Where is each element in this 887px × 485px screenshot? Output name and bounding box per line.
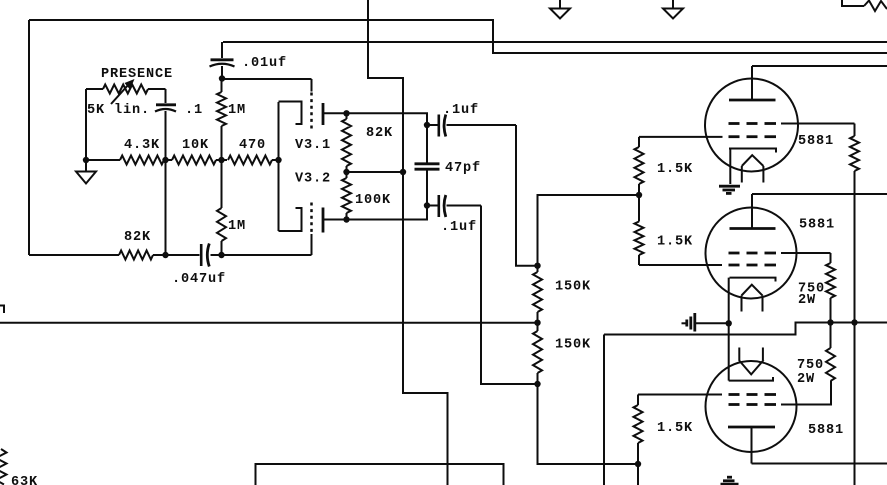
node 150K bottom junction — [534, 381, 540, 387]
svg-text:82K: 82K — [366, 126, 393, 141]
resistor 1.5K middle — [635, 195, 644, 265]
label 100K — [355, 193, 391, 208]
node V3.2 plate junction — [343, 216, 349, 222]
node 150K mid junction — [534, 320, 540, 326]
node 750 junction a — [827, 319, 833, 325]
label V3.1 — [295, 138, 331, 153]
node V3.1 plate junction — [343, 110, 349, 116]
wire top feed B (.01uf rail) — [223, 41, 887, 43]
node .01uf/1M junction — [219, 75, 225, 81]
ground presence (open triangle) — [76, 160, 96, 184]
label 750 third — [797, 358, 824, 373]
node cap junction top — [424, 122, 430, 128]
wire grid link to 1.5K — [538, 195, 640, 266]
label 470 — [239, 138, 266, 153]
label 82K lower — [124, 230, 151, 245]
node 1.5K mid junction — [636, 192, 642, 198]
resistor 1.5K upper — [635, 137, 644, 195]
capacitor .01uf — [210, 42, 235, 79]
wire 150K chain down — [538, 384, 639, 464]
box bottom component — [256, 464, 504, 485]
label 63K — [11, 475, 38, 485]
resistor 750 first — [850, 124, 859, 485]
label 1M lower — [228, 219, 246, 234]
tube V1 5881 envelope — [705, 79, 798, 172]
svg-text:1M: 1M — [228, 219, 246, 234]
triode V3.2 cathode — [279, 208, 302, 231]
label .047uf — [172, 272, 226, 287]
label PRESENCE — [101, 67, 173, 82]
resistor 4.3K — [86, 156, 167, 165]
node .047/1M junction — [218, 252, 224, 258]
label .1uf upper — [443, 103, 479, 118]
svg-text:.01uf: .01uf — [242, 56, 287, 71]
label 1.5K middle — [657, 235, 693, 250]
wire rail right section — [604, 323, 887, 335]
wire V3.2 plate to cap — [347, 206, 428, 220]
node 4.3K/10K junction — [162, 157, 168, 163]
tube V1 grid row1 — [729, 122, 855, 125]
svg-text:2W: 2W — [797, 372, 815, 387]
svg-text:5881: 5881 — [808, 423, 844, 438]
wire long rail left — [0, 322, 538, 324]
wire plate line tube V3 — [752, 463, 887, 465]
node 82K/.1 junction — [162, 252, 168, 258]
node 1.5K bottom junction — [635, 461, 641, 467]
node feed junction — [400, 169, 406, 175]
svg-text:.1: .1 — [185, 103, 203, 118]
tube V2 grid row1 — [729, 252, 831, 255]
svg-text:4.3K: 4.3K — [124, 138, 160, 153]
svg-text:150K: 150K — [555, 338, 591, 353]
resistor 63K partial — [0, 449, 7, 485]
resistor 82K plate — [342, 113, 351, 172]
resistor partial top-right corner — [842, 0, 887, 11]
node 10K/470/1M junction — [218, 157, 224, 163]
label 150K lower — [555, 338, 591, 353]
node cap junction bottom — [424, 202, 430, 208]
label 2W third — [797, 372, 815, 387]
wire main feed vertical — [368, 0, 448, 485]
tube V2 grid row2 — [729, 264, 777, 267]
arrow connector down 1 — [550, 0, 570, 19]
tube V3 grid row1 — [638, 394, 776, 396]
svg-text:5881: 5881 — [798, 134, 834, 149]
resistor 1M upper — [217, 79, 226, 160]
wire coupling top route — [516, 125, 538, 266]
label 5881 tube2 — [799, 218, 835, 233]
tube V3 grid row2 — [729, 381, 832, 405]
svg-text:47pf: 47pf — [445, 161, 481, 176]
wire plate line tube V2 — [752, 193, 887, 195]
wire top feed A (left loop top) — [29, 20, 887, 53]
resistor 750 third — [826, 323, 835, 382]
tube V3 5881 envelope — [706, 361, 797, 452]
wire PI input link — [347, 171, 404, 173]
label 1.5K upper — [657, 162, 693, 177]
label .1uf lower — [441, 220, 477, 235]
arrow connector down 2 — [663, 0, 683, 19]
resistor 1.5K third — [634, 395, 643, 485]
wire V3.1 plate to cap — [347, 113, 428, 125]
capacitor .047uf — [166, 244, 222, 267]
tube V3 plate — [728, 427, 775, 464]
node 150K top junction — [534, 263, 540, 269]
resistor 1M lower — [217, 160, 226, 255]
resistor 100K — [342, 172, 351, 220]
label 150K upper — [555, 280, 591, 295]
resistor 150K lower — [533, 323, 542, 384]
tube V3 cathode — [729, 348, 773, 381]
svg-text:1.5K: 1.5K — [657, 235, 693, 250]
node pot-ground junction — [83, 157, 89, 163]
tube V2 5881 envelope — [706, 208, 797, 299]
svg-text:V3.1: V3.1 — [295, 138, 331, 153]
potentiometer wiper arrow — [111, 79, 135, 104]
resistor 82K lower — [29, 251, 166, 260]
capacitor 47pf — [415, 125, 440, 206]
wire grid tube2 — [639, 264, 722, 266]
ground tube V1 — [719, 186, 740, 193]
svg-text:750: 750 — [797, 358, 824, 373]
label 750 second — [798, 282, 825, 297]
resistor 470 — [228, 156, 279, 165]
label 5881 tube1 — [798, 134, 834, 149]
capacitor .1uf upper — [427, 115, 516, 137]
resistor 10K — [167, 156, 227, 165]
triode V3.1 grid — [311, 79, 313, 129]
tube V2 plate — [730, 194, 776, 229]
wire vertical x604 — [603, 335, 605, 485]
potentiometer 5K lin body — [86, 85, 166, 161]
triode V3.2 plate — [323, 208, 347, 233]
wire presence node — [28, 20, 30, 255]
svg-text:.1uf: .1uf — [443, 103, 479, 118]
svg-text:.1uf: .1uf — [441, 220, 477, 235]
svg-text:82K: 82K — [124, 230, 151, 245]
wire grid V3.2 feed — [222, 254, 312, 256]
label 4.3K — [124, 138, 160, 153]
svg-text:2W: 2W — [798, 293, 816, 308]
svg-text:470: 470 — [239, 138, 266, 153]
svg-text:1.5K: 1.5K — [657, 162, 693, 177]
tube V1 cathode — [729, 149, 776, 185]
wire .1-cap branch down — [165, 160, 167, 255]
triode V3.1 plate — [323, 103, 347, 125]
wire cathode link V2-V3 — [728, 278, 730, 381]
label 2W second — [798, 293, 816, 308]
ground inverted tube V3 — [721, 477, 739, 484]
svg-text:63K: 63K — [11, 475, 38, 485]
tube V1 plate — [729, 66, 776, 100]
label 47pf — [445, 161, 481, 176]
tube V1 grid row2 — [729, 135, 777, 138]
svg-text:.047uf: .047uf — [172, 272, 226, 287]
resistor 150K upper — [533, 266, 542, 323]
wire coupling bottom route — [481, 206, 538, 385]
capacitor .1 (pot leg) — [155, 89, 176, 160]
label 5K lin. — [87, 103, 150, 118]
svg-text:10K: 10K — [182, 138, 209, 153]
capacitor .1uf lower — [427, 195, 481, 217]
svg-text:5881: 5881 — [799, 218, 835, 233]
left edge stub — [0, 306, 4, 314]
label V3.2 — [295, 172, 331, 187]
node 470/cathode junction — [275, 157, 281, 163]
label 1.5K third — [657, 421, 693, 436]
label .01uf — [242, 56, 287, 71]
tube V2 cathode — [730, 278, 776, 312]
wire plate line tube V1 (top) — [752, 65, 887, 67]
label 10K — [182, 138, 209, 153]
node 82K/100K junction — [343, 169, 349, 175]
svg-text:1.5K: 1.5K — [657, 421, 693, 436]
triode V3.1 cathode — [279, 102, 302, 125]
wire cathode link V3 — [278, 102, 280, 231]
svg-text:5K lin.: 5K lin. — [87, 103, 150, 118]
ground chassis mid — [682, 313, 729, 332]
label .1 — [185, 103, 203, 118]
label 1M upper — [228, 103, 246, 118]
svg-text:V3.2: V3.2 — [295, 172, 331, 187]
node 750 junction b — [851, 319, 857, 325]
svg-text:PRESENCE: PRESENCE — [101, 67, 173, 82]
resistor 750 second — [826, 253, 835, 323]
label 82K plate — [366, 126, 393, 141]
node cathode-ground junction — [726, 320, 732, 326]
wire grid tube1 — [639, 136, 723, 138]
wire grid feed V3.1 — [222, 78, 312, 80]
label 5881 tube3 — [808, 423, 844, 438]
svg-text:1M: 1M — [228, 103, 246, 118]
svg-text:100K: 100K — [355, 193, 391, 208]
svg-text:150K: 150K — [555, 280, 591, 295]
triode V3.2 grid — [310, 203, 313, 256]
